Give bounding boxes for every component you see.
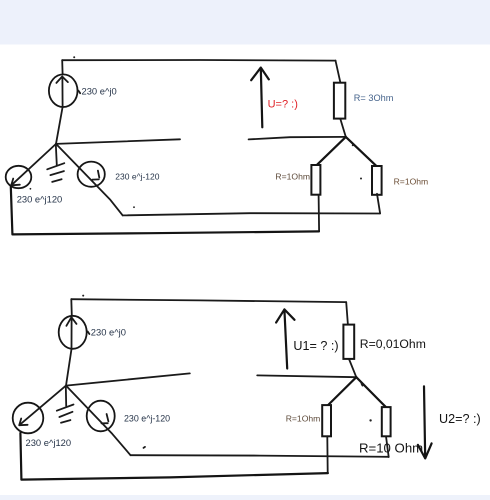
wire R5 bottom vertical — [326, 436, 328, 473]
svg-text:U=? :): U=? :) — [268, 98, 298, 110]
source V4 arrowhead — [66, 317, 76, 326]
top toolbar band — [0, 0, 490, 45]
wire bottom rail B2 (V6 to R5) — [21, 473, 328, 480]
svg-text:230 e^j0: 230 e^j0 — [82, 85, 117, 96]
wire top rail C1 — [62, 59, 335, 62]
svg-text:R=10 Ohm: R=10 Ohm — [359, 440, 423, 455]
wire mid rail segment 1 C2 — [66, 373, 190, 385]
dot on rail A2 — [144, 447, 146, 448]
wire N1 to right load resistor R3 — [346, 137, 377, 166]
wire mid rail segment 2 C1 — [249, 137, 346, 140]
source V6 circle (230 e^j120) — [13, 403, 44, 434]
ground stroke 2 C1 — [50, 171, 64, 175]
svg-text:230 e^j120: 230 e^j120 — [26, 437, 72, 448]
resistor R2 (left R=1Ohm) — [311, 165, 320, 195]
wire diagonal node to V5 through circle — [66, 386, 131, 456]
ground stroke 1 C2 — [57, 405, 74, 411]
tick below N2 — [362, 384, 363, 386]
wire R6 bottom lead — [386, 436, 389, 457]
dot near V3 label — [30, 188, 32, 190]
wire mid rail segment 2 C2 — [257, 375, 356, 377]
ground lead C1 — [56, 144, 57, 165]
dot between load resistors C1 — [360, 178, 362, 180]
wire R1 bottom to star node N1 — [340, 119, 346, 137]
source V6 arrowhead — [19, 419, 27, 426]
source V2 circle (230 e^j-120) — [78, 162, 105, 187]
arrow U1 (C2) — [276, 309, 294, 368]
wire N1 to left load resistor R2 — [317, 137, 346, 165]
source V3 arrowhead — [11, 179, 20, 186]
arrow U2 (C2) — [418, 386, 432, 458]
svg-text:R= 3Ohm: R= 3Ohm — [354, 93, 394, 103]
source V5 arrowhead — [102, 414, 109, 423]
wire R2 bottom vertical — [318, 195, 321, 232]
wire lead top rail to source V4 — [70, 299, 73, 316]
wire bottom rail A2 (V5 to R6) — [131, 455, 389, 457]
wire lead from top rail to resistor R1 — [336, 61, 341, 83]
wire bottom rail A (V2 to R3) — [123, 213, 380, 215]
svg-text:R=1Ohm: R=1Ohm — [394, 177, 429, 187]
svg-text:R=1Ohm: R=1Ohm — [275, 172, 310, 182]
resistor R5 (left R=1Ohm) — [322, 405, 331, 436]
ground stroke 1 C1 — [47, 163, 64, 169]
svg-text:230 e^j-120: 230 e^j-120 — [124, 414, 170, 424]
tick before label V1 — [78, 91, 80, 94]
wire diagonal node to V6 through circle — [19, 386, 66, 426]
wire top rail C2 — [71, 299, 346, 302]
bottom toolbar band — [0, 495, 490, 500]
wire lead top rail to source V1 — [61, 60, 63, 74]
wire N2 to right load resistor R6 — [356, 377, 385, 407]
wire diagonal node to V3 through circle — [11, 144, 56, 185]
dot between load resistors C2 — [369, 419, 371, 421]
svg-text:U1= ? :): U1= ? :) — [293, 339, 338, 353]
arrow U (C1) — [251, 68, 269, 128]
source V4 circle (230 e^j0) — [59, 316, 87, 349]
wire N2 to left load resistor R5 — [328, 377, 356, 405]
svg-text:230 e^j-120: 230 e^j-120 — [115, 171, 159, 181]
svg-text:230 e^j0: 230 e^j0 — [91, 326, 126, 337]
node dot top rail C2 — [82, 295, 84, 297]
ground stroke 3 C2 — [61, 420, 70, 423]
dot on rail A left part C1 — [133, 206, 135, 208]
ground stroke 2 C2 — [59, 412, 72, 417]
dot near N1 — [352, 144, 354, 146]
svg-text:U2=? :): U2=? :) — [439, 412, 481, 426]
resistor R1 (R=3Ohm) — [334, 83, 345, 119]
wire R3 bottom lead — [377, 194, 380, 214]
svg-text:R=1Ohm: R=1Ohm — [286, 413, 321, 423]
wire bottom rail B (V3 to R2) — [12, 231, 319, 234]
ground stroke 3 C1 — [52, 179, 61, 182]
source V5 circle (230 e^j-120) — [87, 401, 115, 432]
resistor R6 (right R=1Ohm... labeled R=10 Ohm) — [382, 407, 391, 436]
wire V3 bottom lead down left edge — [11, 187, 13, 234]
svg-text:230 e^j120: 230 e^j120 — [17, 194, 63, 205]
resistor R4 (R=0,01Ohm) — [343, 325, 354, 359]
node dot top rail C1 — [73, 56, 75, 58]
source V1 arrow shaft through circle to node — [56, 77, 63, 144]
svg-text:R=0,01Ohm: R=0,01Ohm — [360, 337, 426, 351]
wire V6 bottom lead down left edge — [20, 433, 21, 479]
tick before label V4 — [88, 331, 90, 334]
wire lead from top rail to resistor R4 — [346, 302, 348, 325]
source V2 arrowhead — [92, 171, 99, 180]
source V4 arrow shaft through circle to node — [66, 317, 72, 385]
source V3 circle (230 e^j120) — [6, 166, 32, 188]
ground lead C2 — [65, 386, 67, 406]
wire R4 bottom to star node N2 — [349, 359, 356, 377]
wire diagonal node to V2 through circle — [56, 144, 123, 216]
source V1 circle (230 e^j0) — [49, 74, 78, 107]
source V1 arrowhead — [56, 77, 68, 83]
wire mid rail segment 1 C1 — [56, 139, 180, 144]
resistor R3 (right R=1Ohm) — [372, 166, 382, 195]
